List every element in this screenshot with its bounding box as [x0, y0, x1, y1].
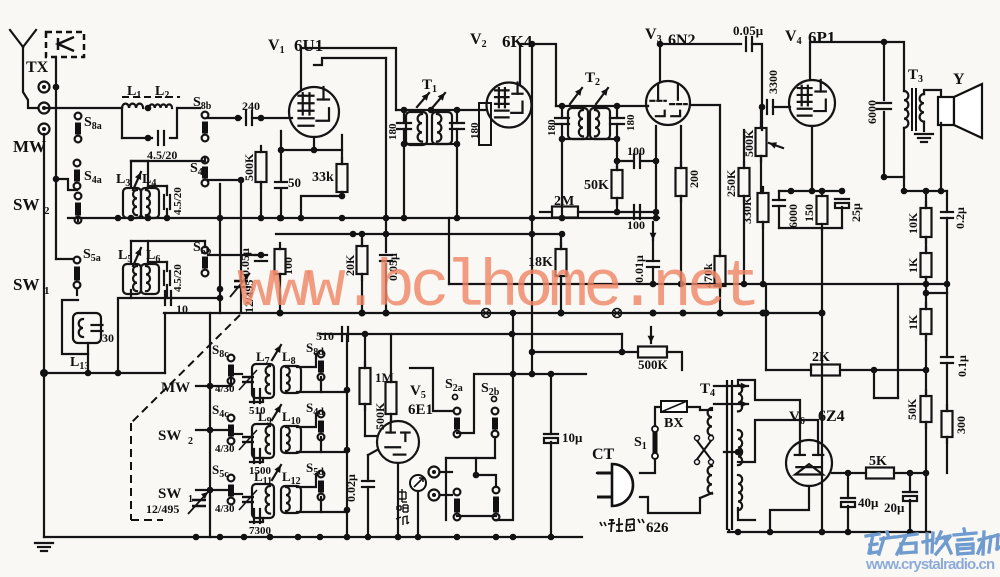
- switch contact left 5c: [228, 475, 235, 505]
- wire 500K v5 up: [390, 334, 392, 382]
- wire 18K top: [560, 234, 562, 249]
- wire term link dn: [475, 458, 477, 475]
- wire S4a feed: [56, 179, 77, 190]
- junction v2 line: [529, 41, 536, 48]
- wire T1 cap a low: [403, 129, 405, 144]
- svg-text:6E1: 6E1: [408, 402, 433, 418]
- junction 1k mid: [923, 290, 930, 297]
- wire 33k down: [301, 192, 342, 218]
- inductor L13 winding: [79, 319, 83, 337]
- wire row 8c right out: [321, 391, 347, 393]
- wire 100 down: [279, 274, 281, 313]
- trimmer cap 4.5/20 c: [164, 271, 170, 285]
- wire s2b lower up: [476, 475, 496, 487]
- svg-text:10: 10: [176, 302, 188, 316]
- switch contact right 4c: [318, 411, 325, 441]
- junction term link: [473, 472, 480, 479]
- wire s2a top: [410, 368, 452, 411]
- label dianchangji (record player, vertical): [396, 489, 409, 526]
- svg-text:6P1: 6P1: [808, 28, 835, 47]
- wire 0.2 up: [946, 191, 948, 212]
- svg-text:SW: SW: [158, 428, 181, 444]
- junction ant: [53, 84, 60, 91]
- tube V5 6E1: [377, 421, 419, 463]
- wire plug top prong: [640, 459, 655, 473]
- svg-text:330K: 330K: [740, 196, 754, 224]
- fuse BX: [661, 401, 687, 412]
- wire v5 bottom: [397, 463, 399, 537]
- heater arrow a: [714, 383, 748, 390]
- wire 40u up: [847, 473, 849, 498]
- inductor T4 sec heater: [738, 475, 742, 510]
- wire t4 prim b bot: [700, 493, 712, 498]
- capacitor 1500 4c: [254, 449, 260, 463]
- junction V3 top: [657, 41, 664, 48]
- inductor row 8c b box: [281, 366, 301, 393]
- wire t4 mid tap: [724, 451, 738, 453]
- svg-text:TX: TX: [26, 59, 49, 76]
- svg-text:33k: 33k: [312, 170, 334, 185]
- wire t4 prim a top: [700, 409, 712, 411]
- wire 0.01 up: [652, 240, 654, 261]
- svg-text:510: 510: [316, 329, 334, 343]
- inductor T3 secondary: [920, 94, 924, 122]
- wire 10u dn: [550, 442, 552, 537]
- inductor T4 primary b: [708, 466, 712, 494]
- wire c6000 dn: [778, 206, 780, 228]
- wire trim b link: [148, 185, 167, 187]
- junction cap10 x220: [217, 295, 224, 302]
- wire 12/495a up: [240, 180, 242, 281]
- wire v5 left: [365, 435, 377, 437]
- arrow pot: [648, 327, 655, 343]
- capacitor 10: [165, 291, 171, 305]
- antenna arm right: [23, 30, 36, 47]
- resistor 10K: [921, 202, 932, 243]
- wire 0.1 up: [946, 293, 948, 357]
- wire v4 cath rail: [779, 190, 843, 192]
- svg-text:2: 2: [44, 205, 50, 217]
- heater arrow b: [714, 401, 748, 408]
- wire L3 top: [130, 161, 132, 186]
- resistor 150: [817, 190, 828, 230]
- svg-text:MW: MW: [161, 380, 190, 396]
- wire L4 top: [147, 161, 149, 186]
- inductor T4 sec hv mid: [738, 430, 742, 465]
- wire 20K top: [361, 234, 363, 246]
- dashed box K (remote antenna): [46, 32, 84, 57]
- wire agc 0.05 vertical: [385, 58, 387, 252]
- wire row 5c right top: [297, 474, 316, 487]
- resistor 50K v3: [612, 164, 623, 204]
- wire 0.02 up: [367, 455, 369, 481]
- svg-text:200: 200: [687, 170, 701, 188]
- inductor row 5c b loops: [286, 487, 290, 511]
- wire T2 cap c: [561, 106, 563, 118]
- inductor T4 sec hv top: [738, 385, 742, 411]
- wire x220: [219, 184, 221, 313]
- svg-text:300: 300: [954, 416, 968, 434]
- switch S2a bar: [454, 408, 461, 438]
- svg-text:Y: Y: [953, 71, 965, 88]
- wire T1 bottom rail: [404, 143, 457, 145]
- wire row 8c top a: [231, 373, 242, 375]
- terminal ant 2: [39, 103, 50, 114]
- wire V1 cathode: [281, 131, 342, 150]
- inductor row 8c b loops: [286, 367, 290, 391]
- inductor T1 secondary box: [432, 112, 452, 144]
- svg-text:1K: 1K: [906, 257, 920, 273]
- arrow inside K box: [58, 37, 74, 51]
- switch S4b: [202, 157, 209, 187]
- tube V3 6N2: [646, 81, 690, 125]
- junction bus x marks: [482, 309, 622, 318]
- grid box V2: [479, 103, 491, 145]
- wire 330K down: [762, 222, 764, 284]
- junction v4 cath: [788, 188, 795, 195]
- junction cathode: [278, 147, 285, 154]
- wire agc to bus: [385, 264, 387, 313]
- label mudan 626 brand: [600, 518, 644, 532]
- wire 10K dn: [925, 237, 927, 253]
- junction 6000 bottom: [881, 174, 888, 181]
- resistor 33k: [337, 158, 348, 198]
- capacitor 0.1u: [941, 357, 953, 363]
- wire 100b right: [641, 160, 656, 162]
- svg-text:626: 626: [646, 520, 669, 536]
- terminal ant 1: [39, 82, 50, 93]
- tuning arrow L11L12: [272, 465, 281, 480]
- wire 18K down: [560, 276, 562, 313]
- wire 200 down: [680, 196, 682, 284]
- tuning arrow T2 left: [570, 88, 582, 104]
- wire 300 dn: [946, 437, 948, 473]
- wire pot500 up: [760, 110, 762, 128]
- junction v4 top: [881, 39, 888, 46]
- wire t4 sec bot: [738, 508, 755, 520]
- resistor 2M: [552, 207, 578, 218]
- wire plug top prong short: [597, 472, 612, 474]
- inductor L4 loops: [146, 190, 150, 215]
- wire row 4c right out: [321, 451, 347, 453]
- tuning arrow L3L4: [133, 172, 141, 190]
- wire row 5c top a: [231, 493, 242, 495]
- svg-text:1K: 1K: [906, 314, 920, 330]
- capacitor 50: [275, 182, 287, 188]
- inductor row 8c a loops: [266, 366, 270, 394]
- junction v6 out: [845, 470, 852, 477]
- ground T3: [915, 134, 933, 142]
- svg-text:0.2μ: 0.2μ: [953, 207, 967, 229]
- resistor 300: [942, 405, 953, 443]
- inductor L6 box: [141, 264, 159, 294]
- wire T2 to V3 grid: [647, 105, 649, 107]
- wire 10u up: [550, 374, 552, 434]
- speaker Y driver: [938, 97, 954, 125]
- trimmer 4/30 5c: [239, 490, 257, 510]
- inductor L2: [149, 104, 172, 108]
- junction y373: [40, 369, 48, 377]
- wire t4 sec top: [738, 380, 800, 442]
- junction pot: [529, 349, 536, 356]
- crossover X T4: [695, 436, 714, 465]
- wire s2 low rail: [457, 515, 496, 517]
- switch S5a: [74, 257, 81, 289]
- wire rail y234: [276, 233, 561, 235]
- junction pot b: [619, 349, 626, 356]
- core T3: [911, 88, 913, 131]
- junction rail y284: [650, 281, 657, 288]
- wire 50K v3 up: [616, 139, 618, 170]
- inductor T1 primary box: [406, 112, 427, 145]
- wire c6000 up: [778, 191, 780, 200]
- resistor 20K: [357, 240, 368, 280]
- arrow avc pot: [769, 142, 783, 148]
- phono jack: [410, 475, 426, 491]
- inductor L4 box: [141, 188, 159, 218]
- wire 50K fb dn: [925, 422, 927, 473]
- wire s5b top in: [204, 241, 206, 247]
- svg-text:25μ: 25μ: [849, 203, 863, 222]
- inductor T1 primary loops: [418, 114, 422, 142]
- junction T1 rail: [401, 107, 408, 114]
- terminal phono 2: [429, 490, 440, 501]
- wire L13 loop: [62, 300, 88, 354]
- capacitor 0.05u agc: [380, 255, 392, 261]
- trimmer 4/30 4c: [239, 430, 257, 450]
- junction 241-180: [238, 177, 245, 184]
- resistor 18K: [556, 243, 567, 282]
- svg-text:4/30: 4/30: [215, 443, 235, 455]
- wire 250K down: [743, 196, 745, 284]
- wire 500K down: [260, 182, 262, 218]
- inductor T4 primary a: [708, 408, 712, 436]
- trimmer cap 4.5/20 b: [164, 195, 170, 209]
- wire 898 drop: [897, 284, 899, 398]
- power plug CT: [597, 464, 633, 506]
- svg-text:www.bclhome.net: www.bclhome.net: [237, 250, 756, 325]
- wire y373: [44, 372, 165, 374]
- wire V4 cathode: [811, 126, 813, 191]
- wire bottom bus left: [44, 536, 582, 538]
- svg-text:SW: SW: [13, 195, 39, 214]
- switch S2a circle: [453, 395, 458, 400]
- capacitor 7300 5c: [254, 509, 260, 523]
- svg-text:0.02μ: 0.02μ: [344, 474, 358, 502]
- junction block x210: [207, 383, 214, 390]
- svg-text:4.5/20: 4.5/20: [172, 187, 184, 215]
- resistor 1M: [360, 362, 371, 410]
- dashed boundary vertical: [130, 423, 132, 520]
- resistor 5K: [866, 468, 894, 479]
- svg-text:4/30: 4/30: [215, 503, 235, 515]
- wire T3 sec top: [924, 90, 941, 99]
- wire 874 link: [874, 397, 898, 399]
- wire 0.01 down: [652, 267, 654, 284]
- inductor L13 frame: [73, 313, 101, 343]
- wire rail y284: [449, 283, 947, 285]
- switch S2b bar: [492, 408, 499, 438]
- wire L2 right down: [170, 108, 177, 138]
- wire T1 top rail: [396, 109, 487, 111]
- wire L6 top: [147, 241, 149, 262]
- junction x513: [510, 371, 517, 378]
- wire 2M left: [540, 211, 552, 213]
- svg-text:4/30: 4/30: [215, 383, 235, 395]
- wire L5L6 tops: [131, 240, 205, 242]
- wire right col bottom: [926, 473, 930, 532]
- svg-text:6000: 6000: [786, 204, 800, 228]
- junction bottom bus: [193, 534, 200, 541]
- wire 0.1 dn: [946, 363, 948, 411]
- junction T1 bottom: [401, 141, 408, 148]
- wire T3 prim bottom: [903, 128, 905, 177]
- svg-text:40μ: 40μ: [858, 495, 879, 510]
- junction 2k: [871, 367, 878, 374]
- switch S8b: [202, 112, 209, 142]
- wire row 4c right top: [297, 414, 316, 427]
- dashed coupling line L1-L2: [122, 96, 180, 98]
- wire 2K right: [840, 369, 926, 371]
- capacitor 0.05u coupling: [746, 37, 752, 51]
- variable capacitor 12/495 b: [188, 492, 208, 514]
- capacitor 100 b: [634, 154, 640, 168]
- wire T1 cap b: [456, 110, 458, 123]
- wire sw2 stub: [196, 429, 231, 431]
- junction ant line S8a: [145, 135, 152, 142]
- wire left rail x45: [43, 134, 45, 537]
- core T4: [726, 380, 728, 530]
- wire t4 sec tap: [738, 420, 818, 462]
- wire 2K left v: [765, 284, 767, 370]
- wire t4 core dn: [728, 530, 730, 532]
- resistor 500K v5: [386, 376, 397, 420]
- svg-text:2: 2: [188, 436, 193, 447]
- tuning arrow L9L10: [272, 405, 281, 420]
- wire 3300 to V4 grid: [773, 106, 790, 108]
- svg-text:6N2: 6N2: [668, 32, 696, 49]
- wire row 4c right bot: [297, 437, 321, 452]
- inductor L3 loops: [133, 190, 137, 215]
- svg-text:150: 150: [802, 204, 816, 222]
- svg-text:CT: CT: [592, 446, 615, 463]
- wire 12/495a dn: [240, 287, 242, 313]
- wire L5 top: [130, 241, 132, 262]
- wire term2 link: [440, 494, 452, 496]
- wire T1 cap b low: [456, 129, 458, 144]
- wire x513: [496, 313, 513, 520]
- wire v5 0.02 link: [368, 450, 377, 455]
- inductor row 4c b loops: [286, 427, 290, 451]
- svg-text:6000: 6000: [865, 100, 879, 124]
- switch S4a second: [75, 193, 82, 224]
- inductor T3 primary: [904, 91, 908, 128]
- svg-text:3300: 3300: [766, 70, 780, 94]
- resistor 500K v1 grid: [256, 146, 267, 188]
- wire v5 grid: [390, 414, 392, 421]
- svg-text:180: 180: [546, 119, 558, 136]
- wire s2 mid dn: [445, 458, 447, 520]
- switch S2b lower: [493, 487, 500, 521]
- junction fb: [901, 188, 908, 195]
- wire 6000 cap drop: [883, 42, 885, 100]
- switch S2b circle: [492, 397, 497, 402]
- junction y373 b: [85, 370, 92, 377]
- svg-text:180: 180: [387, 123, 399, 140]
- svg-text:0.1μ: 0.1μ: [955, 355, 969, 377]
- capacitor 25u: [835, 199, 849, 208]
- wire V3 plate top line: [660, 43, 741, 45]
- wire T2 cap d low: [616, 124, 618, 139]
- capacitor 6000 plate: [877, 103, 891, 109]
- wire 240 to V1 grid: [252, 117, 292, 119]
- tube V6 6Z4: [786, 440, 832, 486]
- inductor T1 secondary loops: [437, 114, 441, 142]
- wire main bus B+: [164, 312, 823, 314]
- wire trim b dn: [166, 209, 168, 218]
- wire pot left: [532, 351, 638, 353]
- junction L1-L2: [145, 105, 152, 112]
- terminal phono 1: [429, 467, 440, 478]
- wire T2 top rail: [556, 105, 648, 107]
- capacitor 180 c: [555, 118, 569, 124]
- junction x220: [217, 286, 224, 293]
- wire 470k down: [719, 286, 721, 313]
- junction t4: [735, 449, 742, 456]
- capacitor 510 8c: [254, 389, 260, 403]
- wire 470k up: [690, 105, 720, 256]
- svg-text:6K4: 6K4: [502, 32, 533, 51]
- inductor row 5c a loops: [266, 486, 270, 514]
- junction bus: [277, 310, 284, 317]
- junction 510: [362, 331, 369, 338]
- svg-text:100: 100: [627, 144, 645, 158]
- wire S4b out: [208, 179, 241, 181]
- capacitor 180 d: [610, 118, 624, 124]
- wire trim c dn: [166, 285, 168, 298]
- wire row 4c bot a: [250, 458, 263, 462]
- inductor L5 loops: [133, 266, 137, 291]
- inductor T2 primary loops: [579, 110, 583, 136]
- capacitor 30: [92, 325, 103, 331]
- wire cathode down 50: [280, 150, 282, 180]
- wire row 4c top a: [231, 433, 242, 435]
- wire x449 up: [448, 218, 450, 284]
- wire 1M up: [364, 334, 366, 368]
- switch contact right 5c: [318, 471, 325, 501]
- wire y373 up right: [164, 313, 166, 373]
- inductor row 5c a box: [252, 484, 274, 518]
- wire 50 down: [280, 190, 282, 218]
- svg-text:500K: 500K: [242, 153, 256, 181]
- wire 20u dn: [909, 500, 911, 532]
- wire spk to fb: [904, 190, 947, 192]
- junction rail y234: [350, 231, 357, 238]
- svg-text:250K: 250K: [724, 169, 738, 197]
- wire L5L6 bottom: [118, 297, 172, 299]
- wire T2 cap c low: [561, 124, 563, 139]
- antenna arm left: [10, 30, 23, 47]
- junction bottom right: [735, 529, 742, 536]
- wire block vertical x347: [346, 334, 348, 537]
- resistor 250K: [739, 162, 750, 202]
- wire pot right: [667, 352, 682, 370]
- wire 1M dn: [364, 404, 366, 436]
- resistor 50K fb: [921, 390, 932, 428]
- dashed boundary bottom: [131, 519, 163, 521]
- wire K box lead: [55, 57, 57, 87]
- wire rail y218: [68, 217, 659, 219]
